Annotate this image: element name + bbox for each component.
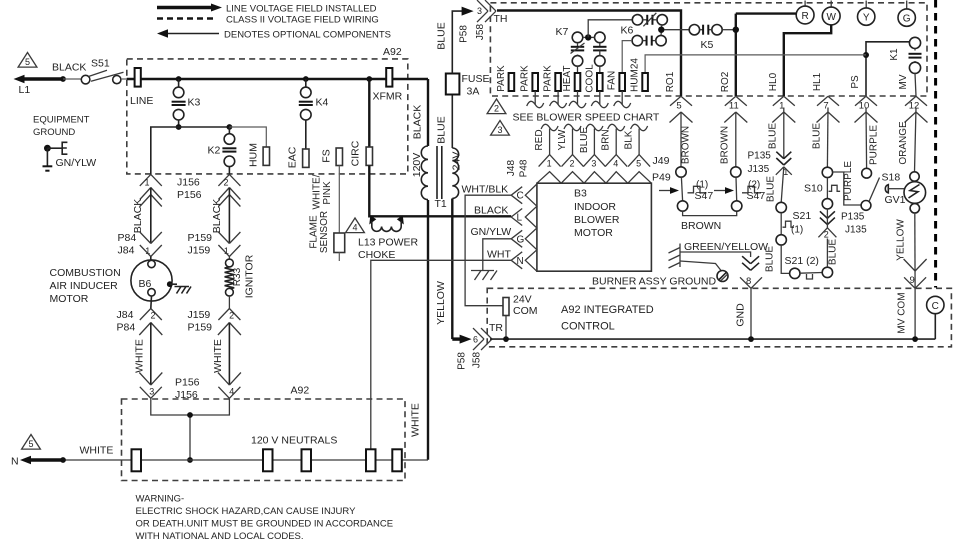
terminal tail with splice xyxy=(599,91,601,105)
svg-text:J159: J159 xyxy=(188,245,211,257)
svg-text:S51: S51 xyxy=(91,58,110,70)
wire RO2 column (R feed) xyxy=(735,14,737,96)
terminal R (thermostat) xyxy=(804,1,806,7)
svg-text:6: 6 xyxy=(473,335,478,345)
plug J58 pin 6 chevrons xyxy=(473,328,484,339)
svg-text:BLACK: BLACK xyxy=(132,199,144,233)
svg-text:TR: TR xyxy=(489,322,503,334)
wire to S21-1 (BLUE) xyxy=(781,167,784,203)
terminal FAN (rect) xyxy=(619,73,625,91)
svg-text:J58: J58 xyxy=(475,24,486,41)
plug arrow green/yellow xyxy=(742,256,751,264)
plug arrow ignitor neutral lower xyxy=(218,373,230,386)
wire HUM24 to K1 node xyxy=(645,55,866,73)
wire HL1 to S10 (BLUE) xyxy=(826,108,829,168)
terminal tail with splice xyxy=(621,91,623,105)
wire S21-2 up to J135 pin 2 xyxy=(826,239,828,268)
svg-text:PURPLE: PURPLE xyxy=(843,161,854,201)
svg-text:24V: 24V xyxy=(451,152,463,171)
wire L1 dot to switch S51 xyxy=(63,78,81,80)
svg-text:IGNITOR: IGNITOR xyxy=(244,254,256,298)
svg-text:BLUE: BLUE xyxy=(828,239,839,265)
svg-text:4: 4 xyxy=(613,159,618,169)
svg-text:BLOWER: BLOWER xyxy=(574,214,620,226)
wire MV to GV1 (ORANGE) xyxy=(915,108,917,173)
wire PS column to K1 xyxy=(866,42,909,96)
terminal RO1 at control edge xyxy=(670,96,681,106)
svg-text:N: N xyxy=(517,256,524,267)
svg-text:GREEN/YELLOW: GREEN/YELLOW xyxy=(684,241,768,253)
gas valve GV1 xyxy=(910,172,919,181)
svg-text:FUSE: FUSE xyxy=(462,73,490,85)
wire K7-2 to COOL terminal xyxy=(599,66,601,73)
wire K1 to MV terminal xyxy=(915,73,916,96)
optional arrow S47-2 xyxy=(714,190,727,192)
terminal MV at control edge xyxy=(905,96,916,106)
svg-text:J48: J48 xyxy=(506,160,517,177)
outer heavy dashed border (right) xyxy=(934,0,937,288)
connector J135 pin 1 xyxy=(776,167,784,175)
plug arrow GV1 yellow xyxy=(904,259,916,271)
node MV COM xyxy=(912,336,918,342)
wire terminal 9 to bus (MV COM) xyxy=(914,288,916,339)
note triangle 2 xyxy=(487,99,506,114)
svg-text:2: 2 xyxy=(824,230,829,240)
svg-text:3: 3 xyxy=(149,387,154,397)
svg-text:R: R xyxy=(801,11,808,22)
ignitor R33 heating element xyxy=(228,257,230,260)
legend optional-component arrow xyxy=(165,33,219,35)
svg-text:EAC: EAC xyxy=(287,146,299,168)
connector J49 pin 2 xyxy=(562,155,573,167)
connector J48 pin N xyxy=(511,252,522,260)
svg-text:INDOOR: INDOOR xyxy=(574,201,616,213)
blower speed wire BLK splice xyxy=(631,124,648,130)
svg-text:COM: COM xyxy=(513,305,538,317)
switch S47 (2) secondary limit xyxy=(731,167,741,177)
svg-text:K6: K6 xyxy=(621,25,634,37)
plug arrow HL1 xyxy=(817,112,829,123)
legend class-II sample wire (dashed) xyxy=(157,17,216,19)
svg-text:BROWN: BROWN xyxy=(681,126,692,164)
wire junction to K2 xyxy=(179,126,230,128)
svg-text:BLACK: BLACK xyxy=(211,199,223,233)
svg-text:CLASS II VOLTAGE FIELD WIRING: CLASS II VOLTAGE FIELD WIRING xyxy=(226,15,379,26)
svg-text:C: C xyxy=(932,301,939,312)
dashed enclosure A92 integrated control xyxy=(487,288,951,347)
svg-text:Y: Y xyxy=(863,13,870,24)
svg-text:GND: GND xyxy=(735,303,747,327)
terminal N field wire with arrow xyxy=(28,458,63,461)
svg-text:K7: K7 xyxy=(556,26,569,38)
svg-text:5: 5 xyxy=(676,101,681,112)
svg-text:MOTOR: MOTOR xyxy=(574,227,613,239)
wire R33 to pin 2 xyxy=(228,296,230,309)
plug arrows to P84 xyxy=(140,232,151,244)
connector J49 pin 5 xyxy=(628,155,639,167)
plug arrows inducer hot xyxy=(140,188,151,200)
node GND xyxy=(748,336,754,342)
transformer T1 primary winding 120V xyxy=(421,146,428,200)
svg-text:S47: S47 xyxy=(695,190,714,202)
svg-text:WHT/BLK: WHT/BLK xyxy=(462,184,509,196)
connector P84 pin 1 xyxy=(140,245,151,257)
wire pin G to chassis ground (GN/YLW) xyxy=(483,239,511,271)
terminal 24V COM (rect) xyxy=(503,298,509,316)
svg-text:CONTROL: CONTROL xyxy=(561,321,615,333)
relay contact K7-1 (NC, heat) xyxy=(572,32,583,43)
svg-text:P156: P156 xyxy=(175,377,200,389)
svg-text:P156: P156 xyxy=(177,189,202,201)
svg-text:1: 1 xyxy=(547,159,552,169)
wire burner ground to screw xyxy=(680,261,721,271)
wire K7-1 to HEAT terminal xyxy=(577,66,579,73)
wire inducer hot (BLACK) xyxy=(150,188,152,244)
svg-text:YELLOW: YELLOW xyxy=(435,281,447,325)
equipment ground junction dot xyxy=(44,145,51,152)
wire C to bus xyxy=(934,314,936,339)
svg-text:P58: P58 xyxy=(457,352,468,370)
connector P159 pin 1 xyxy=(218,245,229,257)
wire 24V secondary bottom to TR (YELLOW) xyxy=(451,199,453,340)
svg-text:BLUE: BLUE xyxy=(768,123,779,149)
svg-text:2: 2 xyxy=(223,178,228,188)
svg-text:MV COM: MV COM xyxy=(897,292,908,333)
connector J156 pin 2 at box edge xyxy=(218,174,229,186)
node B6 case ground dot xyxy=(167,281,173,287)
svg-text:YLW: YLW xyxy=(557,129,568,150)
blower speed wire YLW xyxy=(572,129,574,155)
motor B3 indoor blower enclosure xyxy=(537,183,652,271)
terminal PARK (rect) xyxy=(555,73,561,91)
svg-text:L13 POWER: L13 POWER xyxy=(358,237,419,249)
optional arrow S47-1 xyxy=(659,190,672,192)
svg-text:GV1: GV1 xyxy=(885,194,906,206)
relay coil K2 xyxy=(228,127,230,134)
terminal PS at control edge xyxy=(855,96,866,106)
terminal 8 at control box xyxy=(740,277,751,288)
wire 24V secondary top to fuse (BLUE) xyxy=(451,95,453,149)
wire FS to flame sensor xyxy=(338,166,340,234)
plug arrow MV xyxy=(905,112,917,123)
earth ground symbol xyxy=(46,148,48,166)
svg-text:FLAME: FLAME xyxy=(309,215,320,249)
node HUM24 line to PS/K1 xyxy=(863,52,869,58)
svg-text:K2: K2 xyxy=(208,145,221,157)
wire pin C to 24V COM (WHT/BLK) xyxy=(465,195,511,306)
svg-text:J84: J84 xyxy=(117,309,134,321)
motor B6 combustion air inducer xyxy=(150,257,152,263)
plug arrows to P159 xyxy=(218,232,229,244)
svg-text:J135: J135 xyxy=(845,225,867,236)
wire S47-1 to S47-2 (BROWN) xyxy=(683,211,737,215)
svg-text:RO1: RO1 xyxy=(665,71,676,92)
svg-text:5: 5 xyxy=(28,439,33,449)
svg-text:WHITE: WHITE xyxy=(212,339,224,373)
svg-text:COOL: COOL xyxy=(584,64,595,93)
svg-text:A92: A92 xyxy=(383,46,402,58)
wire RO1 to S47-1 (BROWN) xyxy=(680,112,682,167)
relay contact K6 upper (NC) xyxy=(632,15,642,25)
blower speed wire RED splice xyxy=(541,124,558,130)
svg-text:GN/YLW: GN/YLW xyxy=(471,226,512,238)
wire RO2 to S47-2 (BROWN) xyxy=(735,112,737,167)
svg-text:COMBUSTION: COMBUSTION xyxy=(50,267,121,279)
plug J58 pin 3 chevrons xyxy=(477,0,488,11)
terminal tail with splice xyxy=(577,91,579,105)
svg-text:P84: P84 xyxy=(117,322,136,334)
terminal W (thermostat) xyxy=(830,1,832,8)
svg-text:BLUE: BLUE xyxy=(436,22,448,49)
note triangle 5 (neutral) xyxy=(22,435,41,450)
connector J159 pin 2 xyxy=(218,309,229,321)
svg-text:WITH NATIONAL AND LOCAL CODES.: WITH NATIONAL AND LOCAL CODES. xyxy=(136,531,304,541)
wire ground dot to connector xyxy=(47,147,61,149)
svg-text:BLACK: BLACK xyxy=(412,105,424,139)
connector J48 pin C xyxy=(511,187,522,196)
svg-text:2: 2 xyxy=(570,159,575,169)
connector J49 pin 4 xyxy=(605,155,616,167)
svg-text:2: 2 xyxy=(494,104,499,114)
svg-text:BRN: BRN xyxy=(601,129,612,150)
junction dot L1 lead xyxy=(60,76,66,82)
wire blower neutral (WHT) to 120V neutrals xyxy=(371,260,511,451)
connector J49 pin 1 xyxy=(539,155,550,167)
svg-text:P135: P135 xyxy=(748,151,772,162)
svg-text:J159: J159 xyxy=(188,309,211,321)
svg-text:4: 4 xyxy=(352,223,357,233)
wire W to HL0 column xyxy=(784,25,831,96)
svg-text:SENSOR: SENSOR xyxy=(319,211,330,253)
svg-text:XFMR: XFMR xyxy=(373,91,403,103)
svg-text:P84: P84 xyxy=(118,232,137,244)
svg-text:(1): (1) xyxy=(791,225,803,236)
svg-text:PURPLE: PURPLE xyxy=(868,125,879,165)
plug P49 sawtooth edge xyxy=(537,172,652,184)
svg-text:RED: RED xyxy=(534,129,545,150)
svg-text:ELECTRIC SHOCK HAZARD,CAN CAUS: ELECTRIC SHOCK HAZARD,CAN CAUSE INJURY xyxy=(136,506,357,517)
svg-text:120 V NEUTRALS: 120 V NEUTRALS xyxy=(251,435,337,447)
svg-text:HUM24: HUM24 xyxy=(630,58,641,92)
inductor L13 power choke (optional) xyxy=(369,216,376,225)
switch S21 (1) flame rollout xyxy=(776,202,786,212)
note triangle 3 xyxy=(491,121,510,136)
dashed enclosure thermostat/control section xyxy=(490,3,927,96)
neutral bus wire xyxy=(63,459,428,461)
fuse FUSE 3A xyxy=(446,74,460,95)
svg-text:A92 INTEGRATED: A92 INTEGRATED xyxy=(561,304,654,316)
svg-text:WHITE: WHITE xyxy=(410,403,422,437)
node neutral bus tap xyxy=(187,457,193,463)
svg-text:HUM: HUM xyxy=(248,143,260,167)
svg-text:WHITE: WHITE xyxy=(134,339,146,373)
svg-text:3: 3 xyxy=(497,125,502,135)
svg-text:G: G xyxy=(903,14,911,25)
control board common bus xyxy=(490,338,935,340)
svg-text:K3: K3 xyxy=(188,97,201,109)
connector E glyph xyxy=(62,142,67,156)
blower speed wire BLK xyxy=(638,129,640,155)
svg-text:1: 1 xyxy=(144,178,149,188)
svg-text:PINK: PINK xyxy=(322,181,333,205)
svg-text:LINE: LINE xyxy=(130,95,153,107)
svg-text:P135: P135 xyxy=(841,212,865,223)
svg-text:BLACK: BLACK xyxy=(52,62,86,74)
svg-text:P48: P48 xyxy=(519,159,530,177)
svg-text:WARNING-: WARNING- xyxy=(136,494,185,505)
svg-text:(2): (2) xyxy=(748,180,760,191)
svg-text:120V: 120V xyxy=(411,153,423,178)
svg-text:HL0: HL0 xyxy=(768,72,779,91)
plug arrow RO1 xyxy=(670,112,682,123)
wire GV1 to terminal 9 (YELLOW) xyxy=(914,213,916,288)
terminal HL0 at control edge xyxy=(773,96,784,106)
svg-text:B3: B3 xyxy=(574,188,587,200)
svg-text:EQUIPMENT: EQUIPMENT xyxy=(33,115,90,126)
wire junction to inducer branch xyxy=(151,127,179,174)
plug arrows S10 down xyxy=(820,211,828,218)
chassis ground (burner assy) xyxy=(669,244,681,269)
svg-text:J49: J49 xyxy=(653,155,670,167)
svg-text:P159: P159 xyxy=(188,322,213,334)
svg-text:WHITE/: WHITE/ xyxy=(312,174,323,209)
terminal CIRC (rect) xyxy=(366,147,372,165)
terminal G (thermostat) xyxy=(906,1,908,10)
blower speed wire BLUE splice xyxy=(586,124,603,130)
svg-text:T1: T1 xyxy=(435,198,447,210)
legend line-voltage sample wire xyxy=(157,6,213,9)
relay contact K7-2 (NO, cool) xyxy=(595,32,606,43)
neutral terminal rects xyxy=(132,449,142,471)
wire terminal 8 to bus (GND) xyxy=(750,288,752,339)
note triangle 4 (power choke) xyxy=(346,218,365,233)
svg-text:S47: S47 xyxy=(747,190,766,202)
switch S47 (1) primary limit xyxy=(676,167,686,177)
svg-text:S21 (2): S21 (2) xyxy=(785,255,819,267)
wire primary left leg down to neutral (WHITE) xyxy=(427,200,429,460)
node K7 common xyxy=(583,36,595,38)
plug arrow ignitor neutral upper xyxy=(218,323,230,336)
svg-text:L1: L1 xyxy=(19,84,31,96)
wire ignitor neutral (WHITE) xyxy=(228,323,230,386)
svg-text:DENOTES OPTIONAL COMPONENTS: DENOTES OPTIONAL COMPONENTS xyxy=(224,30,391,41)
svg-text:PS: PS xyxy=(850,75,861,89)
wire CIRC black run to blower (BLACK) xyxy=(369,166,511,217)
svg-text:S18: S18 xyxy=(882,172,901,184)
svg-text:OR DEATH.UNIT MUST BE GROUNDED: OR DEATH.UNIT MUST BE GROUNDED IN ACCORD… xyxy=(136,519,394,530)
connector J156 pin 1 at box edge xyxy=(140,174,151,186)
wire B6 to pin 2 xyxy=(150,296,153,309)
svg-text:K4: K4 xyxy=(316,97,329,109)
wire K6 node to K5 xyxy=(665,29,690,31)
svg-text:CHOKE: CHOKE xyxy=(358,249,395,261)
svg-text:B6: B6 xyxy=(139,278,152,290)
screw terminal (burner ground) xyxy=(717,271,728,282)
blower speed wire BRN xyxy=(615,129,617,155)
flame sensor electrode xyxy=(334,233,345,253)
svg-text:5: 5 xyxy=(25,57,30,67)
connector J84 pin 2 xyxy=(140,309,151,321)
connector J49 pin 3 xyxy=(583,155,594,167)
svg-text:P159: P159 xyxy=(188,232,213,244)
svg-text:G: G xyxy=(517,234,525,245)
svg-text:2: 2 xyxy=(229,311,234,321)
dashed enclosure A92 neutrals box xyxy=(122,399,406,481)
wire fuse to plug P58-3 (BLUE) xyxy=(452,11,464,73)
svg-text:MV: MV xyxy=(898,74,909,89)
svg-text:BROWN: BROWN xyxy=(720,126,731,164)
main line-voltage bus wire xyxy=(127,78,428,80)
svg-text:J135: J135 xyxy=(748,164,770,175)
svg-text:AIR INDUCER: AIR INDUCER xyxy=(50,280,119,292)
relay coil K3 xyxy=(178,79,180,87)
svg-text:BURNER ASSY GROUND: BURNER ASSY GROUND xyxy=(592,276,716,288)
svg-text:GN/YLW: GN/YLW xyxy=(56,157,97,169)
svg-text:BLUE: BLUE xyxy=(579,127,590,153)
terminal COOL (rect) xyxy=(597,73,603,91)
plug arrow HL0 xyxy=(772,112,784,123)
terminal Y (thermostat) xyxy=(865,1,867,9)
relay contact K5 xyxy=(689,25,699,35)
plug P58/J58 pin 3 arrow xyxy=(462,9,466,12)
svg-text:P58: P58 xyxy=(459,25,470,43)
svg-text:PARK: PARK xyxy=(496,65,507,92)
svg-text:24V: 24V xyxy=(513,294,532,306)
wire bus to transformer primary (BLACK) xyxy=(427,79,429,146)
node K3 tap on bus xyxy=(176,76,182,82)
dashed enclosure A92 control box xyxy=(127,59,408,174)
terminal HL1 at control edge xyxy=(817,96,828,106)
terminal C (24V common) xyxy=(927,296,944,313)
svg-text:8: 8 xyxy=(746,276,751,287)
connector P156 pin 4 at box edge xyxy=(218,387,229,399)
connector J135 pin 2 xyxy=(818,228,827,238)
switch S10 limit xyxy=(822,167,832,177)
wire K6 lower to FAN terminal xyxy=(622,41,632,73)
plug P48 sawtooth edge xyxy=(525,184,537,271)
svg-text:PARK: PARK xyxy=(543,65,554,92)
switch S21 (2) flame rollout xyxy=(790,268,800,278)
connector J48 pin G xyxy=(511,230,522,239)
plug arrow inducer neutral lower xyxy=(139,373,151,386)
chassis ground (blower) xyxy=(471,271,497,281)
blower speed wire BLUE xyxy=(593,129,595,155)
wire inducer neutral (WHITE) xyxy=(150,323,152,386)
node K6 output xyxy=(660,25,663,27)
svg-text:GROUND: GROUND xyxy=(33,127,75,138)
transformer T1 core xyxy=(436,146,438,199)
svg-text:11: 11 xyxy=(729,101,739,112)
wire burner ground to terminal 8 (GREEN/YELLOW) xyxy=(680,252,751,257)
relay coil K4 xyxy=(305,79,307,87)
svg-text:BLUE: BLUE xyxy=(811,123,822,149)
terminal HEAT (rect) xyxy=(575,73,581,91)
blower speed wire BRN splice xyxy=(608,124,625,130)
svg-text:BLK: BLK xyxy=(624,130,635,149)
terminal HUM (rect) xyxy=(263,147,269,165)
svg-text:2: 2 xyxy=(150,311,155,321)
switch S18 pressure/rollout xyxy=(862,168,872,178)
blower speed wire RED xyxy=(549,129,551,155)
svg-text:CIRC: CIRC xyxy=(350,140,362,166)
svg-text:HL1: HL1 xyxy=(812,72,823,91)
note triangle 5 (upper left) xyxy=(18,53,37,68)
terminal FS (rect) xyxy=(336,148,342,166)
svg-text:W: W xyxy=(826,12,836,23)
svg-text:LINE VOLTAGE FIELD INSTALLED: LINE VOLTAGE FIELD INSTALLED xyxy=(226,4,377,15)
wire 24V COM to bus xyxy=(505,316,507,340)
terminal tail with splice xyxy=(534,91,536,105)
